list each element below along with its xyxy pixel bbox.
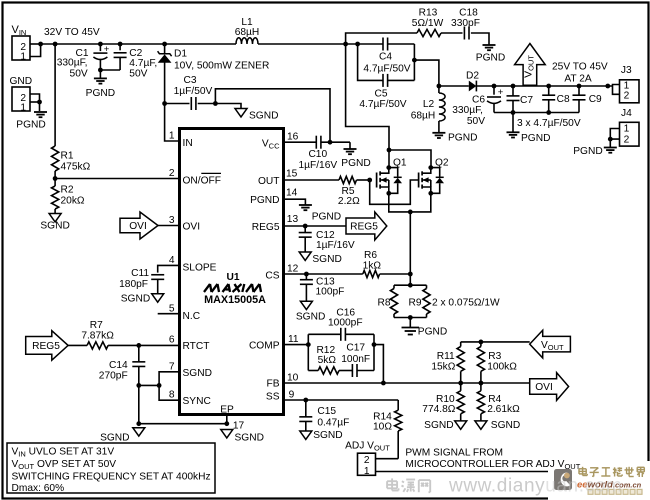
- ground PGND at GND connector: [39, 102, 41, 111]
- node comp at FB line: [381, 381, 386, 386]
- svg-text:4: 4: [169, 255, 175, 266]
- ground SGND below C13: [300, 301, 312, 309]
- node C10/VCC rail: [328, 140, 333, 145]
- capacitor C9: [577, 84, 582, 89]
- svg-text:20kΩ: 20kΩ: [61, 196, 85, 207]
- capacitor C4 4.7uF/50V: [382, 38, 384, 51]
- svg-text:C15: C15: [317, 406, 336, 417]
- svg-text:2 x 0.075Ω/1W: 2 x 0.075Ω/1W: [432, 298, 500, 309]
- ground SGND below R10: [455, 421, 467, 429]
- svg-text:OVI: OVI: [183, 222, 201, 233]
- svg-text:3 x 4.7µF/50V: 3 x 4.7µF/50V: [517, 118, 581, 129]
- svg-text:32V TO 45V: 32V TO 45V: [44, 27, 100, 38]
- svg-text:2.61kΩ: 2.61kΩ: [487, 404, 520, 415]
- svg-text:RTCT: RTCT: [183, 341, 210, 352]
- ground PGND below sense resistors: [409, 318, 411, 328]
- wire gate bus Q1-Q2: [370, 180, 419, 204]
- svg-text:68µH: 68µH: [235, 27, 260, 38]
- node REG5/C12: [303, 224, 308, 229]
- svg-text:5kΩ: 5kΩ: [318, 355, 337, 366]
- svg-text:1µF/50V: 1µF/50V: [174, 86, 213, 97]
- wire drain feed from input bus: [346, 44, 389, 150]
- svg-text:C17: C17: [346, 343, 365, 354]
- svg-text:68µH: 68µH: [411, 111, 436, 122]
- node VIN junction: [38, 42, 43, 47]
- svg-text:REG5: REG5: [32, 341, 60, 352]
- resistor R3 100k: [480, 342, 482, 347]
- node D1 anode / C3: [162, 101, 167, 106]
- svg-text:C9: C9: [589, 94, 602, 105]
- svg-text:50V: 50V: [129, 69, 147, 80]
- svg-text:PWM SIGNAL FROM: PWM SIGNAL FROM: [405, 447, 503, 458]
- svg-text:L2: L2: [423, 99, 435, 110]
- capacitor C11 180pF: [151, 274, 164, 276]
- tag OVI output arrow: [530, 373, 569, 401]
- svg-text:R2: R2: [61, 185, 74, 196]
- node R3 top: [479, 340, 484, 345]
- resistor R1 475k: [54, 44, 56, 146]
- transistor Q2 MOSFET: [418, 173, 420, 188]
- logo MAXIM: [204, 284, 210, 292]
- wire REG5 to R7: [68, 344, 87, 346]
- svg-text:PGND: PGND: [250, 195, 279, 206]
- ground PGND at J4: [609, 139, 611, 147]
- svg-text:7.87kΩ: 7.87kΩ: [81, 331, 114, 342]
- svg-text:ON/OFF: ON/OFF: [183, 175, 221, 186]
- svg-text:1kΩ: 1kΩ: [363, 260, 382, 271]
- node COMP left: [306, 342, 311, 347]
- svg-text:7: 7: [169, 361, 175, 372]
- inductor L1 68uH: [236, 38, 258, 44]
- wire ON/OFF to divider: [55, 178, 178, 180]
- node C1/C2 ground tie: [98, 68, 103, 73]
- capacitor C8: [546, 84, 551, 89]
- wire D1 node to IN pin: [165, 104, 178, 142]
- ground PGND below C1: [99, 70, 101, 78]
- svg-text:5: 5: [169, 304, 175, 315]
- svg-text:R6: R6: [364, 250, 377, 261]
- node R1/R2 junction: [53, 176, 58, 181]
- capacitor C3 1uF/50V: [165, 103, 190, 105]
- node L2 top: [437, 84, 442, 89]
- svg-text:R8: R8: [377, 298, 390, 309]
- svg-text:C18: C18: [459, 8, 478, 19]
- svg-text:R9: R9: [408, 298, 421, 309]
- svg-text:2.2Ω: 2.2Ω: [338, 196, 360, 207]
- capacitor C5 4.7uF/50V: [382, 74, 384, 87]
- wire SGND/SYNC tie bracket: [159, 372, 178, 400]
- watermark text eeworld chinese title: [579, 467, 644, 477]
- svg-text:SGND: SGND: [424, 420, 453, 431]
- node C3 right: [213, 101, 218, 106]
- svg-text:PGND: PGND: [312, 211, 341, 222]
- ground PGND below L2: [432, 132, 445, 134]
- node R6 at sense rail: [408, 272, 413, 277]
- wire source bus: [389, 193, 431, 212]
- wire R14 to ADJ connector: [376, 458, 399, 460]
- node COMP right: [372, 342, 377, 347]
- svg-text:1: 1: [364, 466, 370, 477]
- svg-text:C14: C14: [109, 360, 128, 371]
- node C14 bottom: [136, 383, 141, 388]
- ground SGND below C15: [300, 431, 312, 439]
- svg-text:100kΩ: 100kΩ: [487, 362, 517, 373]
- svg-text:SGND: SGND: [296, 311, 325, 322]
- svg-text:0.47µF: 0.47µF: [317, 417, 349, 428]
- svg-text:SS: SS: [266, 392, 280, 403]
- resistor R5 2.2ohm: [339, 176, 357, 183]
- svg-text:10V, 500mW ZENER: 10V, 500mW ZENER: [174, 60, 269, 71]
- wire FB pin10 line: [284, 382, 530, 384]
- wire C4/C5 network: [358, 44, 383, 80]
- resistor R8 0.075ohm: [393, 285, 395, 288]
- node RTCT/C14: [136, 343, 141, 348]
- wire D2 to output caps: [476, 85, 612, 87]
- node EP pin 17: [224, 421, 229, 426]
- resistor R2 20k: [54, 179, 56, 187]
- wire CS pin12 to R6: [284, 273, 363, 275]
- wire R8/R9 bottom bus: [394, 317, 427, 319]
- svg-text:MAX15005A: MAX15005A: [204, 294, 266, 306]
- wire REG5 pin13: [284, 225, 347, 227]
- wire EP rail: [139, 423, 227, 425]
- svg-text:SGND: SGND: [313, 430, 342, 441]
- node EP rail left: [136, 421, 141, 426]
- wire comp network left side: [307, 334, 309, 370]
- svg-text:SWITCHING FREQUENCY SET AT 400: SWITCHING FREQUENCY SET AT 400kHz: [12, 472, 211, 483]
- capacitor C17 100nF: [339, 370, 353, 372]
- pin EP stub: [226, 415, 228, 424]
- svg-text:2: 2: [624, 91, 630, 102]
- wire PGND pin14 to ground: [284, 199, 306, 204]
- wire to L2/D2 node: [414, 60, 439, 86]
- svg-text:15kΩ: 15kΩ: [431, 362, 455, 373]
- svg-text:Q2: Q2: [435, 157, 449, 168]
- svg-text:C6: C6: [472, 94, 485, 105]
- svg-text:COMP: COMP: [249, 340, 280, 351]
- watermark eeworld logo block background: [548, 461, 650, 500]
- svg-text:475kΩ: 475kΩ: [61, 162, 91, 173]
- svg-text:VIN UVLO SET AT 31V: VIN UVLO SET AT 31V: [12, 446, 115, 458]
- resistor R12 5k: [308, 370, 318, 372]
- svg-text:330µF,: 330µF,: [452, 105, 483, 116]
- capacitor C13 100pF: [305, 274, 307, 280]
- svg-text:C10: C10: [308, 149, 327, 160]
- svg-text:IN: IN: [183, 138, 193, 149]
- svg-text:10Ω: 10Ω: [373, 422, 392, 433]
- node C4/C5 right to L2: [412, 58, 417, 63]
- wire R8/R9 top bus: [394, 284, 427, 286]
- wire VIN pin1 riser: [30, 44, 41, 57]
- svg-text:100pF: 100pF: [316, 287, 345, 298]
- info box switching parameters: [7, 443, 215, 493]
- tag REG5 arrow at RTCT: [26, 331, 68, 361]
- wire snubber branch: [346, 33, 417, 44]
- svg-text:8: 8: [169, 390, 175, 401]
- inductor L2 68uH: [438, 86, 440, 93]
- svg-text:270pF: 270pF: [99, 370, 128, 381]
- node drain bus: [387, 148, 392, 153]
- svg-text:OUT: OUT: [258, 176, 280, 187]
- wire output bus: [439, 85, 469, 87]
- node Q1 source: [386, 191, 391, 196]
- svg-text:SGND: SGND: [491, 420, 520, 431]
- resistor R11 15k: [460, 342, 462, 347]
- node Q1 gate: [367, 178, 372, 183]
- svg-text:SGND: SGND: [249, 110, 278, 121]
- svg-text:2: 2: [364, 455, 370, 466]
- wire source rail down: [409, 212, 411, 285]
- wire comp network right side: [373, 334, 375, 370]
- svg-text:C7: C7: [520, 95, 533, 106]
- ground SGND below C12: [299, 252, 311, 260]
- node CS/C13: [304, 272, 309, 277]
- svg-text:REG5: REG5: [252, 222, 280, 233]
- wire OVI to pin3: [158, 225, 178, 227]
- capacitor C10 1uF/16V: [315, 136, 317, 149]
- tag OVI input arrow: [120, 212, 158, 239]
- svg-text:9: 9: [289, 389, 295, 400]
- svg-text:U1: U1: [226, 272, 239, 283]
- svg-text:1: 1: [20, 51, 26, 62]
- ground SGND left of EP: [133, 428, 145, 436]
- svg-text:N.C: N.C: [183, 311, 201, 322]
- node R11/R10 at FB: [458, 381, 463, 386]
- svg-text:1: 1: [20, 102, 26, 113]
- node J3 tap: [605, 84, 610, 89]
- node R3/R4 at FB: [479, 381, 484, 386]
- svg-text:100nF: 100nF: [341, 354, 370, 365]
- svg-text:15: 15: [286, 169, 298, 180]
- svg-text:PGND: PGND: [573, 146, 602, 157]
- capacitor C1 330uF polarized: [98, 42, 103, 47]
- svg-text:AT 2A: AT 2A: [564, 74, 592, 85]
- svg-text:R13: R13: [419, 8, 438, 19]
- svg-text:SGND: SGND: [40, 221, 69, 232]
- capacitor C18 330pF: [463, 27, 465, 40]
- tag REG5 output arrow: [346, 212, 387, 240]
- ground SGND below C11: [152, 294, 164, 302]
- svg-text:SLOPE: SLOPE: [183, 263, 217, 274]
- wire J4 pins tie: [610, 129, 619, 140]
- svg-text:1: 1: [169, 131, 175, 142]
- svg-text:C4: C4: [379, 52, 392, 63]
- svg-text:Dmax: 60%: Dmax: 60%: [12, 483, 65, 494]
- svg-text:50V: 50V: [70, 69, 88, 80]
- svg-text:GND: GND: [10, 76, 33, 87]
- wire N.C pin5 stub: [158, 313, 178, 315]
- svg-text:SGND: SGND: [183, 368, 212, 379]
- capacitor C6 330uF polarized: [492, 84, 497, 89]
- node source bus tap: [408, 210, 413, 215]
- svg-text:25V TO 45V: 25V TO 45V: [552, 62, 608, 73]
- wire R7 to RTCT pin6: [108, 344, 178, 346]
- svg-text:J3: J3: [621, 65, 632, 76]
- ground SGND near C3: [235, 109, 247, 117]
- svg-text:PGND: PGND: [341, 158, 370, 169]
- tag VOUT up arrow: [515, 44, 546, 86]
- wire C14 to SGND/SYNC bracket: [139, 384, 159, 386]
- svg-text:1: 1: [624, 124, 630, 135]
- wire VOUT sense top: [461, 341, 530, 343]
- svg-text:330pF: 330pF: [451, 18, 480, 29]
- resistor R14 10ohm: [397, 400, 399, 410]
- wire SS pin9: [284, 399, 399, 401]
- node Q1 drain: [386, 165, 391, 170]
- capacitor C2 4.7uF: [118, 42, 123, 47]
- tag VOUT sense arrow: [530, 330, 571, 358]
- svg-text:D1: D1: [174, 49, 187, 60]
- resistor R4 2.61k: [477, 391, 484, 414]
- svg-text:6: 6: [169, 334, 175, 345]
- ground PGND below output caps: [512, 113, 514, 132]
- svg-text:C11: C11: [131, 268, 149, 279]
- capacitor C7: [511, 84, 516, 89]
- wire main input bus 32V: [41, 43, 236, 45]
- svg-text:12: 12: [287, 264, 299, 275]
- svg-text:R7: R7: [90, 320, 103, 331]
- svg-text:Q1: Q1: [393, 157, 407, 168]
- ground PGND at C10: [349, 142, 351, 148]
- wire VCC pin16 to C10: [284, 141, 317, 143]
- resistor R6 1k: [363, 270, 380, 277]
- wire GND pins tie: [30, 94, 40, 102]
- wire COMP pin11: [284, 344, 309, 346]
- wire OUT pin15 to R5: [284, 179, 340, 181]
- svg-text:PGND: PGND: [448, 132, 477, 143]
- wire J3 pins tie: [613, 85, 620, 95]
- svg-text:PGND: PGND: [476, 53, 505, 64]
- svg-text:1000pF: 1000pF: [328, 318, 363, 329]
- svg-text:1µF/16V: 1µF/16V: [298, 160, 337, 171]
- svg-text:SGND: SGND: [312, 254, 341, 265]
- svg-text:5Ω/1W: 5Ω/1W: [412, 18, 444, 29]
- svg-text:10: 10: [287, 372, 299, 383]
- svg-text:14: 14: [286, 187, 298, 198]
- svg-text:1µF/16V: 1µF/16V: [316, 240, 355, 251]
- watermark eeworld slogan blocks: [588, 489, 594, 495]
- svg-text:OVI: OVI: [535, 382, 553, 393]
- svg-text:SYNC: SYNC: [183, 396, 211, 407]
- svg-text:R1: R1: [61, 151, 74, 162]
- svg-text:EP: EP: [220, 405, 234, 416]
- resistor R10 774.8ohm: [457, 391, 464, 414]
- node bracket: [157, 383, 162, 388]
- op-amp U1 MAX15005A IC body: [180, 129, 284, 415]
- svg-text:R3: R3: [488, 351, 501, 362]
- ground PGND below C18: [483, 44, 496, 46]
- svg-text:MICROCONTROLLER FOR ADJ VOUT: MICROCONTROLLER FOR ADJ VOUT: [405, 459, 580, 471]
- svg-text:17: 17: [233, 421, 245, 432]
- svg-text:C3: C3: [183, 75, 196, 86]
- svg-text:FB: FB: [266, 379, 279, 390]
- svg-text:PGND: PGND: [418, 327, 447, 338]
- svg-text:J4: J4: [621, 108, 632, 119]
- svg-text:180pF: 180pF: [119, 279, 148, 290]
- watermark eeworld logo square: [554, 469, 572, 490]
- wire C3 to SGND: [215, 104, 241, 109]
- svg-text:C5: C5: [374, 88, 387, 99]
- svg-text:4.7µF,: 4.7µF,: [129, 58, 157, 69]
- wire drain bus to Q1: [388, 150, 390, 168]
- diode D1 zener 10V: [162, 42, 167, 47]
- svg-text:4.7µF/50V: 4.7µF/50V: [363, 64, 410, 75]
- wire C14 node down to EP rail: [138, 385, 140, 423]
- svg-text:11: 11: [288, 334, 299, 345]
- svg-text:PGND: PGND: [521, 133, 550, 144]
- svg-text:SGND: SGND: [100, 432, 129, 443]
- capacitor C14 270pF: [138, 345, 140, 361]
- svg-text:13: 13: [287, 214, 299, 225]
- svg-text:50V: 50V: [467, 116, 485, 127]
- svg-text:R11: R11: [437, 351, 455, 362]
- transistor Q1 MOSFET: [376, 173, 378, 188]
- capacitor C12 1uF/16V: [304, 226, 306, 233]
- wire VIN pin2 to bus: [30, 43, 41, 45]
- svg-text:330µF,: 330µF,: [57, 58, 88, 69]
- svg-text:PGND: PGND: [86, 88, 115, 99]
- resistor R9 0.075ohm: [426, 285, 428, 288]
- svg-text:CS: CS: [265, 270, 279, 281]
- wire C3 to VCC rail: [215, 89, 330, 142]
- wire drain bus to Q2: [389, 150, 431, 168]
- diode D2: [469, 81, 477, 92]
- wire ADJ VOUT pin1 PWM input: [376, 471, 549, 473]
- node Q2 drain: [428, 165, 433, 170]
- node Q2 source: [428, 191, 433, 196]
- node sense bottom: [408, 315, 413, 320]
- wire SLOPE pin4 to C11: [158, 265, 178, 272]
- svg-text:REG5: REG5: [350, 222, 378, 233]
- resistor R13 5ohm/1W: [417, 29, 441, 36]
- wire output caps bottom bus: [494, 112, 579, 114]
- svg-text:2: 2: [624, 134, 630, 145]
- ground SGND below R2: [49, 214, 61, 222]
- ground SGND below EP: [221, 430, 233, 438]
- svg-text:PGND: PGND: [16, 120, 45, 131]
- ground PGND at pin14: [299, 204, 312, 206]
- resistor R7 7.87k: [87, 342, 108, 349]
- node SS/C15: [303, 398, 308, 403]
- svg-text:4.7µF/50V: 4.7µF/50V: [359, 99, 406, 110]
- svg-text:OVI: OVI: [129, 221, 147, 232]
- svg-text:D2: D2: [466, 71, 479, 82]
- ground SGND below R4: [475, 421, 487, 429]
- svg-text:774.8Ω: 774.8Ω: [422, 404, 455, 415]
- svg-text:SGND: SGND: [235, 432, 264, 443]
- wire comp to FB: [374, 345, 383, 383]
- capacitor C16 1000pF: [308, 333, 341, 335]
- svg-text:2: 2: [169, 168, 175, 179]
- svg-text:16: 16: [287, 132, 299, 143]
- svg-text:SGND: SGND: [121, 293, 150, 304]
- svg-text:C8: C8: [557, 94, 570, 105]
- svg-text:3: 3: [169, 215, 175, 226]
- capacitor C15 0.47uF: [305, 400, 307, 417]
